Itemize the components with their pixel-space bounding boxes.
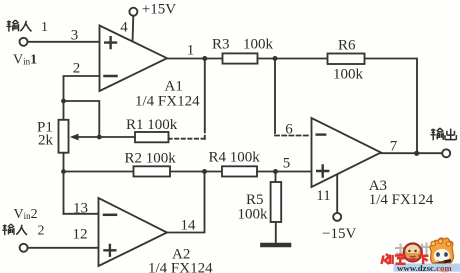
pin number labels <box>71 20 398 243</box>
wire pin6 branch <box>274 59 276 134</box>
label shuru1 (input 1) <box>6 20 31 32</box>
svg-text:R3: R3 <box>212 37 230 53</box>
svg-text:2k: 2k <box>38 133 54 149</box>
wire to A2 pin13 <box>64 213 99 215</box>
label shuchu (output) <box>431 128 457 140</box>
ground <box>262 243 289 248</box>
svg-text:14: 14 <box>181 218 197 234</box>
op-amp A2 <box>99 198 168 266</box>
resistor R2 <box>134 166 171 176</box>
svg-text:1: 1 <box>187 43 195 59</box>
node R4/R5/pin5 <box>273 169 278 174</box>
svg-text:3: 3 <box>71 28 79 44</box>
wire R6 to output node <box>365 59 418 154</box>
wire input2 to A2 pin12 <box>28 247 99 249</box>
svg-text:R2 100k: R2 100k <box>125 151 177 167</box>
Vin labels <box>13 20 48 239</box>
label shuru2 (input 2) <box>2 224 27 235</box>
watermark <box>382 238 460 273</box>
wire A2 output pin14 <box>167 172 205 233</box>
svg-text:13: 13 <box>73 201 88 217</box>
svg-text:100k: 100k <box>243 37 274 53</box>
wire input1 to A1 pin3 <box>28 41 100 43</box>
node pin2/P1 junction <box>61 99 66 104</box>
svg-text:R4 100k: R4 100k <box>209 150 261 166</box>
node P1/R2 junction <box>61 169 66 174</box>
input terminal Vin2 <box>20 244 28 252</box>
wire +15V to A1 pin4 <box>132 16 135 40</box>
svg-text:1/4 FX124: 1/4 FX124 <box>369 192 434 208</box>
op-amp A3 <box>312 118 382 187</box>
wire A3 output pin7 <box>381 152 442 154</box>
blue strip <box>394 264 460 272</box>
wire R3 to R6 <box>258 58 328 60</box>
faint gray chars <box>395 243 432 258</box>
wire A1 pin2 feedback branch <box>64 76 100 101</box>
svg-text:11: 11 <box>316 188 330 204</box>
resistor R3 <box>223 53 258 63</box>
terminal -15V <box>333 213 341 221</box>
resistor R1 <box>99 132 168 142</box>
svg-text:100k: 100k <box>333 67 364 83</box>
potentiometer P1 wiper arrow <box>70 134 100 141</box>
svg-text:A1: A1 <box>165 79 183 95</box>
input terminal Vin1 <box>20 38 28 46</box>
svg-text:R1 100k: R1 100k <box>126 117 178 133</box>
wire A3 pin11 to -15V <box>336 175 338 213</box>
node A1 output <box>202 56 207 61</box>
op-amp A1 <box>100 26 168 92</box>
svg-text:5: 5 <box>283 156 291 172</box>
wire junction to P1 wiper column <box>64 101 100 137</box>
terminal +15V <box>129 8 137 16</box>
svg-text:R6: R6 <box>338 38 356 54</box>
resistor R4 <box>222 166 257 176</box>
svg-text:7: 7 <box>390 139 398 155</box>
output terminal <box>442 149 450 157</box>
svg-text:1: 1 <box>41 20 48 35</box>
node output <box>414 151 419 156</box>
resistor R6 <box>328 54 365 65</box>
mascot <box>421 238 454 272</box>
emblem circle <box>404 244 422 262</box>
node R2/R4/A2out <box>202 169 207 174</box>
svg-text:Vin2: Vin2 <box>14 207 38 222</box>
svg-text:1/4 FX124: 1/4 FX124 <box>135 93 200 109</box>
potentiometer P1 body <box>59 101 69 214</box>
wire R2 R4 line <box>64 171 134 173</box>
svg-text:100k: 100k <box>238 207 269 223</box>
svg-text:4: 4 <box>120 20 128 36</box>
svg-text:www.dzsc.com: www.dzsc.com <box>397 263 452 273</box>
wire R1 to A1 output (dashed scan) <box>169 138 204 140</box>
svg-text:6: 6 <box>285 122 293 138</box>
svg-text:Vin1: Vin1 <box>13 53 37 68</box>
svg-text:−15V: −15V <box>322 226 356 242</box>
node wiper junction <box>97 135 102 140</box>
resistor R5 <box>271 172 282 243</box>
svg-text:+15V: +15V <box>142 2 176 18</box>
node R3/R6/pin6 <box>273 56 278 61</box>
svg-text:12: 12 <box>73 227 88 243</box>
svg-text:2: 2 <box>38 224 45 239</box>
svg-text:1/4 FX124: 1/4 FX124 <box>148 261 213 273</box>
svg-text:2: 2 <box>73 61 81 77</box>
wire A1 output pin1 <box>167 58 223 60</box>
red brand chars 维库一下 <box>382 253 429 264</box>
